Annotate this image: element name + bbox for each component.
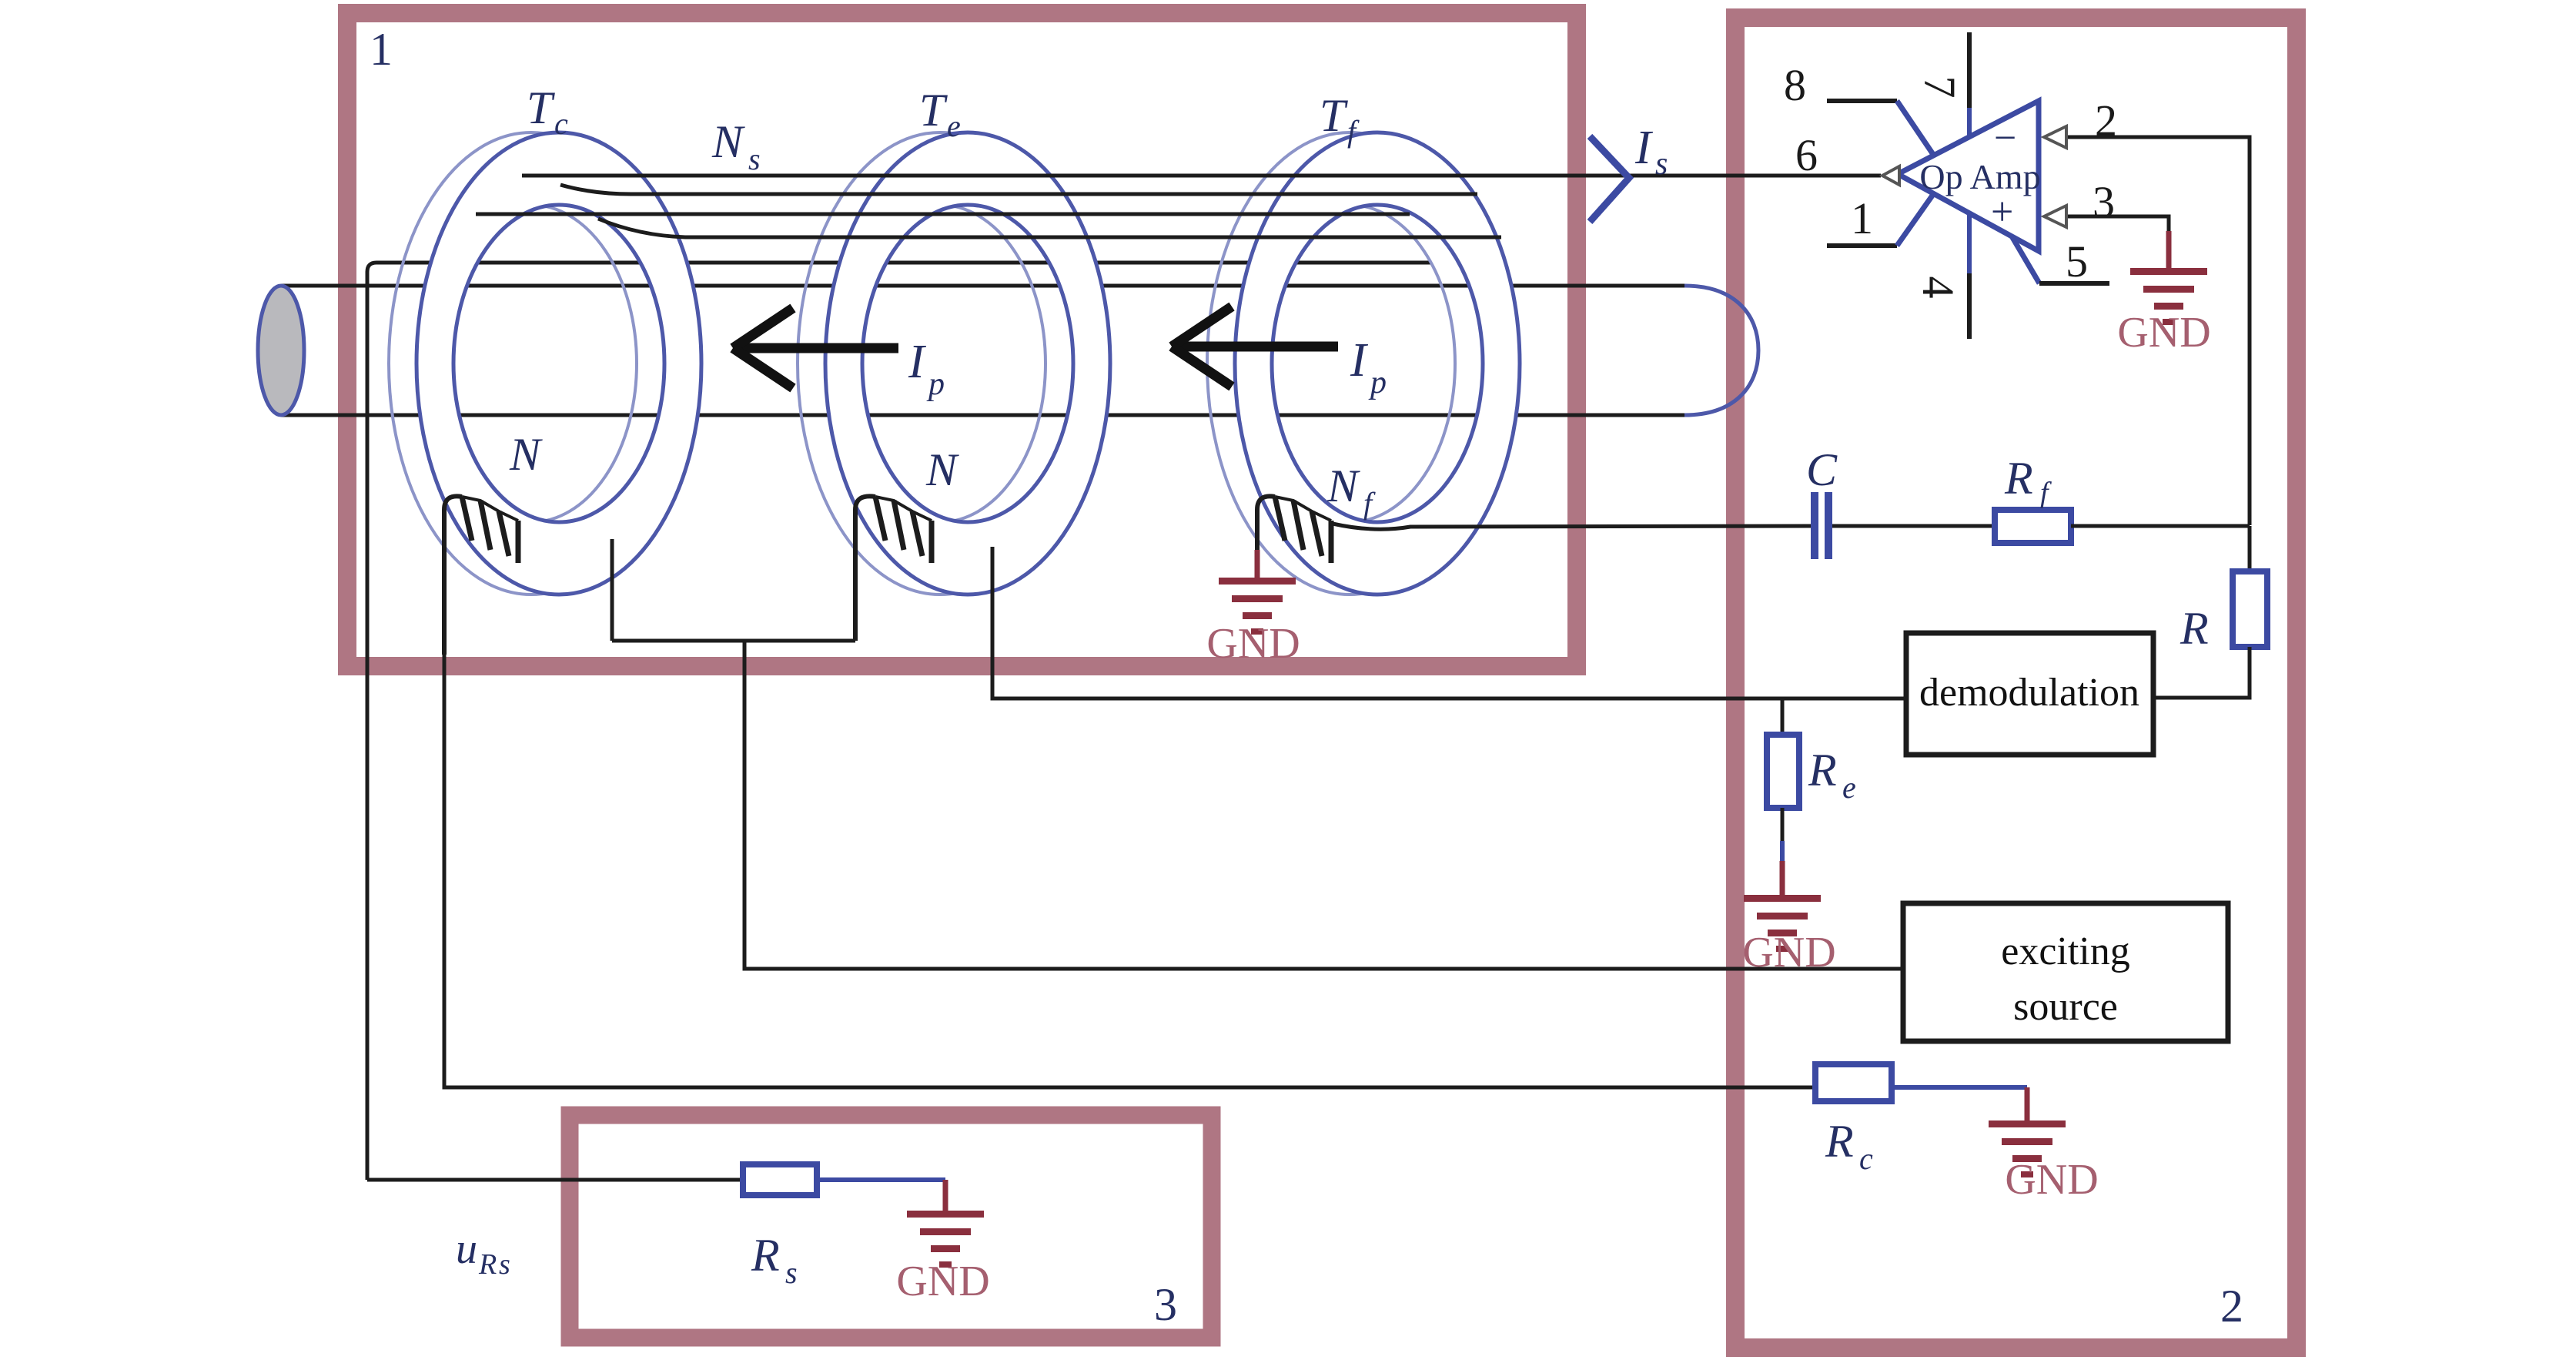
label Ip (left) <box>908 336 945 402</box>
svg-text:T: T <box>919 85 948 136</box>
svg-text:5: 5 <box>2066 236 2088 286</box>
demodulation block <box>1906 633 2153 755</box>
svg-text:p: p <box>926 367 945 402</box>
label Re <box>1808 745 1856 805</box>
wire Tc winding left lead to compensation resistor Rc <box>444 616 1815 1087</box>
wire Rf to feedback node <box>2071 524 2250 528</box>
svg-text:s: s <box>785 1255 798 1290</box>
ground stem at Rs <box>943 1180 948 1212</box>
current arrow Ip (right section) <box>1172 307 1338 387</box>
wire capacitor to resistor Rf <box>1832 524 1995 528</box>
toroid core Tf back outline <box>1207 132 1492 595</box>
svg-text:R: R <box>1808 745 1837 796</box>
wire Ns bundle line 4 <box>598 219 1501 237</box>
svg-text:e: e <box>947 109 961 143</box>
svg-text:c: c <box>554 106 568 141</box>
toroid core Tf front ring <box>1235 132 1520 595</box>
wire Ns bundle line 5 to sampling resistor Rs <box>367 263 1431 1180</box>
primary conductor rod left end cap <box>258 286 304 415</box>
current arrow Is (secondary current) <box>1590 136 1629 222</box>
wire Ns bundle line 2 <box>560 185 1477 194</box>
label Tf <box>1320 90 1360 149</box>
svg-text:I: I <box>1350 334 1369 387</box>
resistor Re <box>1767 735 1799 808</box>
op-amp U1 pin 7 lead <box>1967 32 1972 139</box>
wire Te winding right lead to demodulation <box>992 547 1906 698</box>
label Te <box>919 85 961 143</box>
svg-text:source: source <box>2013 985 2118 1029</box>
wire jumper between Tc and Te windings <box>612 639 855 643</box>
svg-text:6: 6 <box>1795 130 1818 180</box>
winding N on Te (coil hatches) <box>855 496 932 641</box>
resistor Rc <box>1815 1064 1892 1101</box>
svg-text:T: T <box>527 82 555 133</box>
wire Tc winding right lead down to jumper <box>611 539 614 641</box>
svg-text:s: s <box>1655 146 1668 182</box>
box 2 (electronics region) <box>1735 18 2297 1348</box>
wire Nf winding left lead to ground <box>1255 539 1260 553</box>
label Ip (right) <box>1350 334 1387 400</box>
svg-text:e: e <box>1842 770 1856 805</box>
svg-text:8: 8 <box>1784 60 1806 110</box>
capacitor C right plate <box>1825 492 1832 559</box>
op-amp U1 triangle <box>1898 101 2039 251</box>
toroid core Te front ring <box>825 132 1110 595</box>
current arrow Ip (left section) <box>733 308 898 388</box>
ground stem at Rc <box>2025 1087 2030 1122</box>
op-amp U1 pin 8 lead <box>1827 101 1934 156</box>
ground symbol at Rc <box>1989 1120 2066 1177</box>
label uRs (sampled voltage) <box>456 1225 510 1281</box>
ground stem at Nf <box>1255 550 1260 579</box>
svg-text:s: s <box>748 142 761 176</box>
svg-text:GND: GND <box>896 1258 989 1305</box>
svg-text:I: I <box>1634 122 1654 174</box>
label Rf <box>2004 453 2052 509</box>
primary conductor rod right end cap <box>1684 286 1758 415</box>
wire into sampling resistor Rs <box>367 1178 743 1182</box>
wire pin 3 to ground <box>2066 216 2169 235</box>
wire Ns bundle line 1 / Is output wire to op-amp <box>522 174 1881 178</box>
svg-text:N: N <box>925 444 959 495</box>
svg-text:R: R <box>2180 603 2209 654</box>
ground symbol at Nf <box>1219 578 1296 635</box>
primary conductor rod top edge <box>281 284 1684 288</box>
label Rc <box>1825 1116 1873 1176</box>
box 3 (sampling resistor region) <box>570 1115 1212 1338</box>
svg-text:N: N <box>509 429 543 480</box>
wire Rs to ground (blue) <box>817 1177 945 1182</box>
svg-text:GND: GND <box>2117 309 2210 357</box>
winding N on Tc (coil hatches) <box>444 496 518 655</box>
wire Ns bundle line 3 <box>476 213 1410 216</box>
svg-text:u: u <box>456 1225 477 1273</box>
label Rs <box>751 1230 798 1290</box>
svg-text:+: + <box>1991 190 2013 234</box>
resistor R <box>2233 571 2267 647</box>
svg-text:1: 1 <box>1851 193 1873 243</box>
svg-text:7: 7 <box>1915 76 1965 99</box>
wire Nf winding right lead to capacitor C <box>1333 524 1811 529</box>
op-amp U1 pin 4 lead <box>1967 211 1972 339</box>
svg-text:R: R <box>1825 1116 1854 1167</box>
svg-text:R: R <box>751 1230 780 1281</box>
label Nf on Tf <box>1326 461 1376 521</box>
ground stem at op-amp pin 3 <box>2166 231 2172 270</box>
winding Nf on Tf (coil hatches) <box>1257 496 1331 563</box>
svg-text:s: s <box>499 1248 510 1281</box>
wire node down to resistor R <box>2248 526 2252 571</box>
toroid core Te back outline <box>798 132 1082 595</box>
svg-text:2: 2 <box>2220 1281 2243 1332</box>
wire pin 2 feedback from node at R <box>2066 137 2250 525</box>
svg-text:p: p <box>1368 365 1387 400</box>
box 1 (sensor head region) <box>347 13 1577 666</box>
capacitor C left plate <box>1811 492 1818 559</box>
svg-text:T: T <box>1320 90 1348 141</box>
svg-text:4: 4 <box>1913 276 1963 299</box>
svg-text:N: N <box>1326 461 1360 511</box>
wire junction to resistor Re <box>1781 698 1785 735</box>
pin 3 arrowhead <box>2044 206 2066 227</box>
pin 2 arrowhead <box>2044 126 2066 148</box>
svg-text:GND: GND <box>1206 620 1300 668</box>
label Is <box>1634 122 1668 182</box>
toroid core Tc front ring <box>417 132 701 595</box>
op-amp U1 pin 1 lead <box>1827 193 1934 246</box>
svg-text:exciting: exciting <box>2001 930 2130 973</box>
svg-text:c: c <box>1859 1141 1873 1176</box>
svg-text:I: I <box>908 336 927 388</box>
wire Rc to ground (blue) <box>1892 1085 2027 1090</box>
ground stem at Re <box>1780 861 1785 896</box>
svg-text:R: R <box>478 1248 497 1281</box>
ground symbol at op-amp <box>2130 268 2207 325</box>
wire branch from jumper to exciting source <box>744 641 1903 969</box>
ground symbol at Rs <box>907 1211 984 1268</box>
ground symbol at Re <box>1744 895 1821 952</box>
label Ns (secondary winding) <box>711 116 761 176</box>
wire R to demodulation output <box>2153 647 2250 698</box>
svg-text:GND: GND <box>1742 929 1835 976</box>
blue tick on Re ground lead <box>1780 841 1785 861</box>
svg-text:N: N <box>711 116 745 167</box>
primary conductor rod bottom edge <box>281 414 1684 417</box>
svg-text:GND: GND <box>2005 1156 2098 1204</box>
svg-text:demodulation: demodulation <box>1919 671 2139 715</box>
svg-text:C: C <box>1806 444 1838 495</box>
op-amp U1 pin 5 lead <box>2011 235 2109 283</box>
svg-text:Op Amp: Op Amp <box>1919 157 2040 196</box>
resistor Rs <box>743 1164 817 1195</box>
wire Re to ground <box>1781 808 1785 841</box>
svg-text:−: − <box>1994 116 2016 160</box>
resistor Rf <box>1995 510 2071 543</box>
svg-text:R: R <box>2004 453 2033 504</box>
svg-text:3: 3 <box>2093 177 2115 227</box>
exciting source block <box>1903 903 2228 1041</box>
label Tc <box>527 82 568 141</box>
svg-text:3: 3 <box>1154 1279 1177 1330</box>
op-amp output arrowhead (pin 6) <box>1882 166 1899 185</box>
svg-text:1: 1 <box>370 24 393 75</box>
toroid core Tc back outline <box>389 132 674 595</box>
